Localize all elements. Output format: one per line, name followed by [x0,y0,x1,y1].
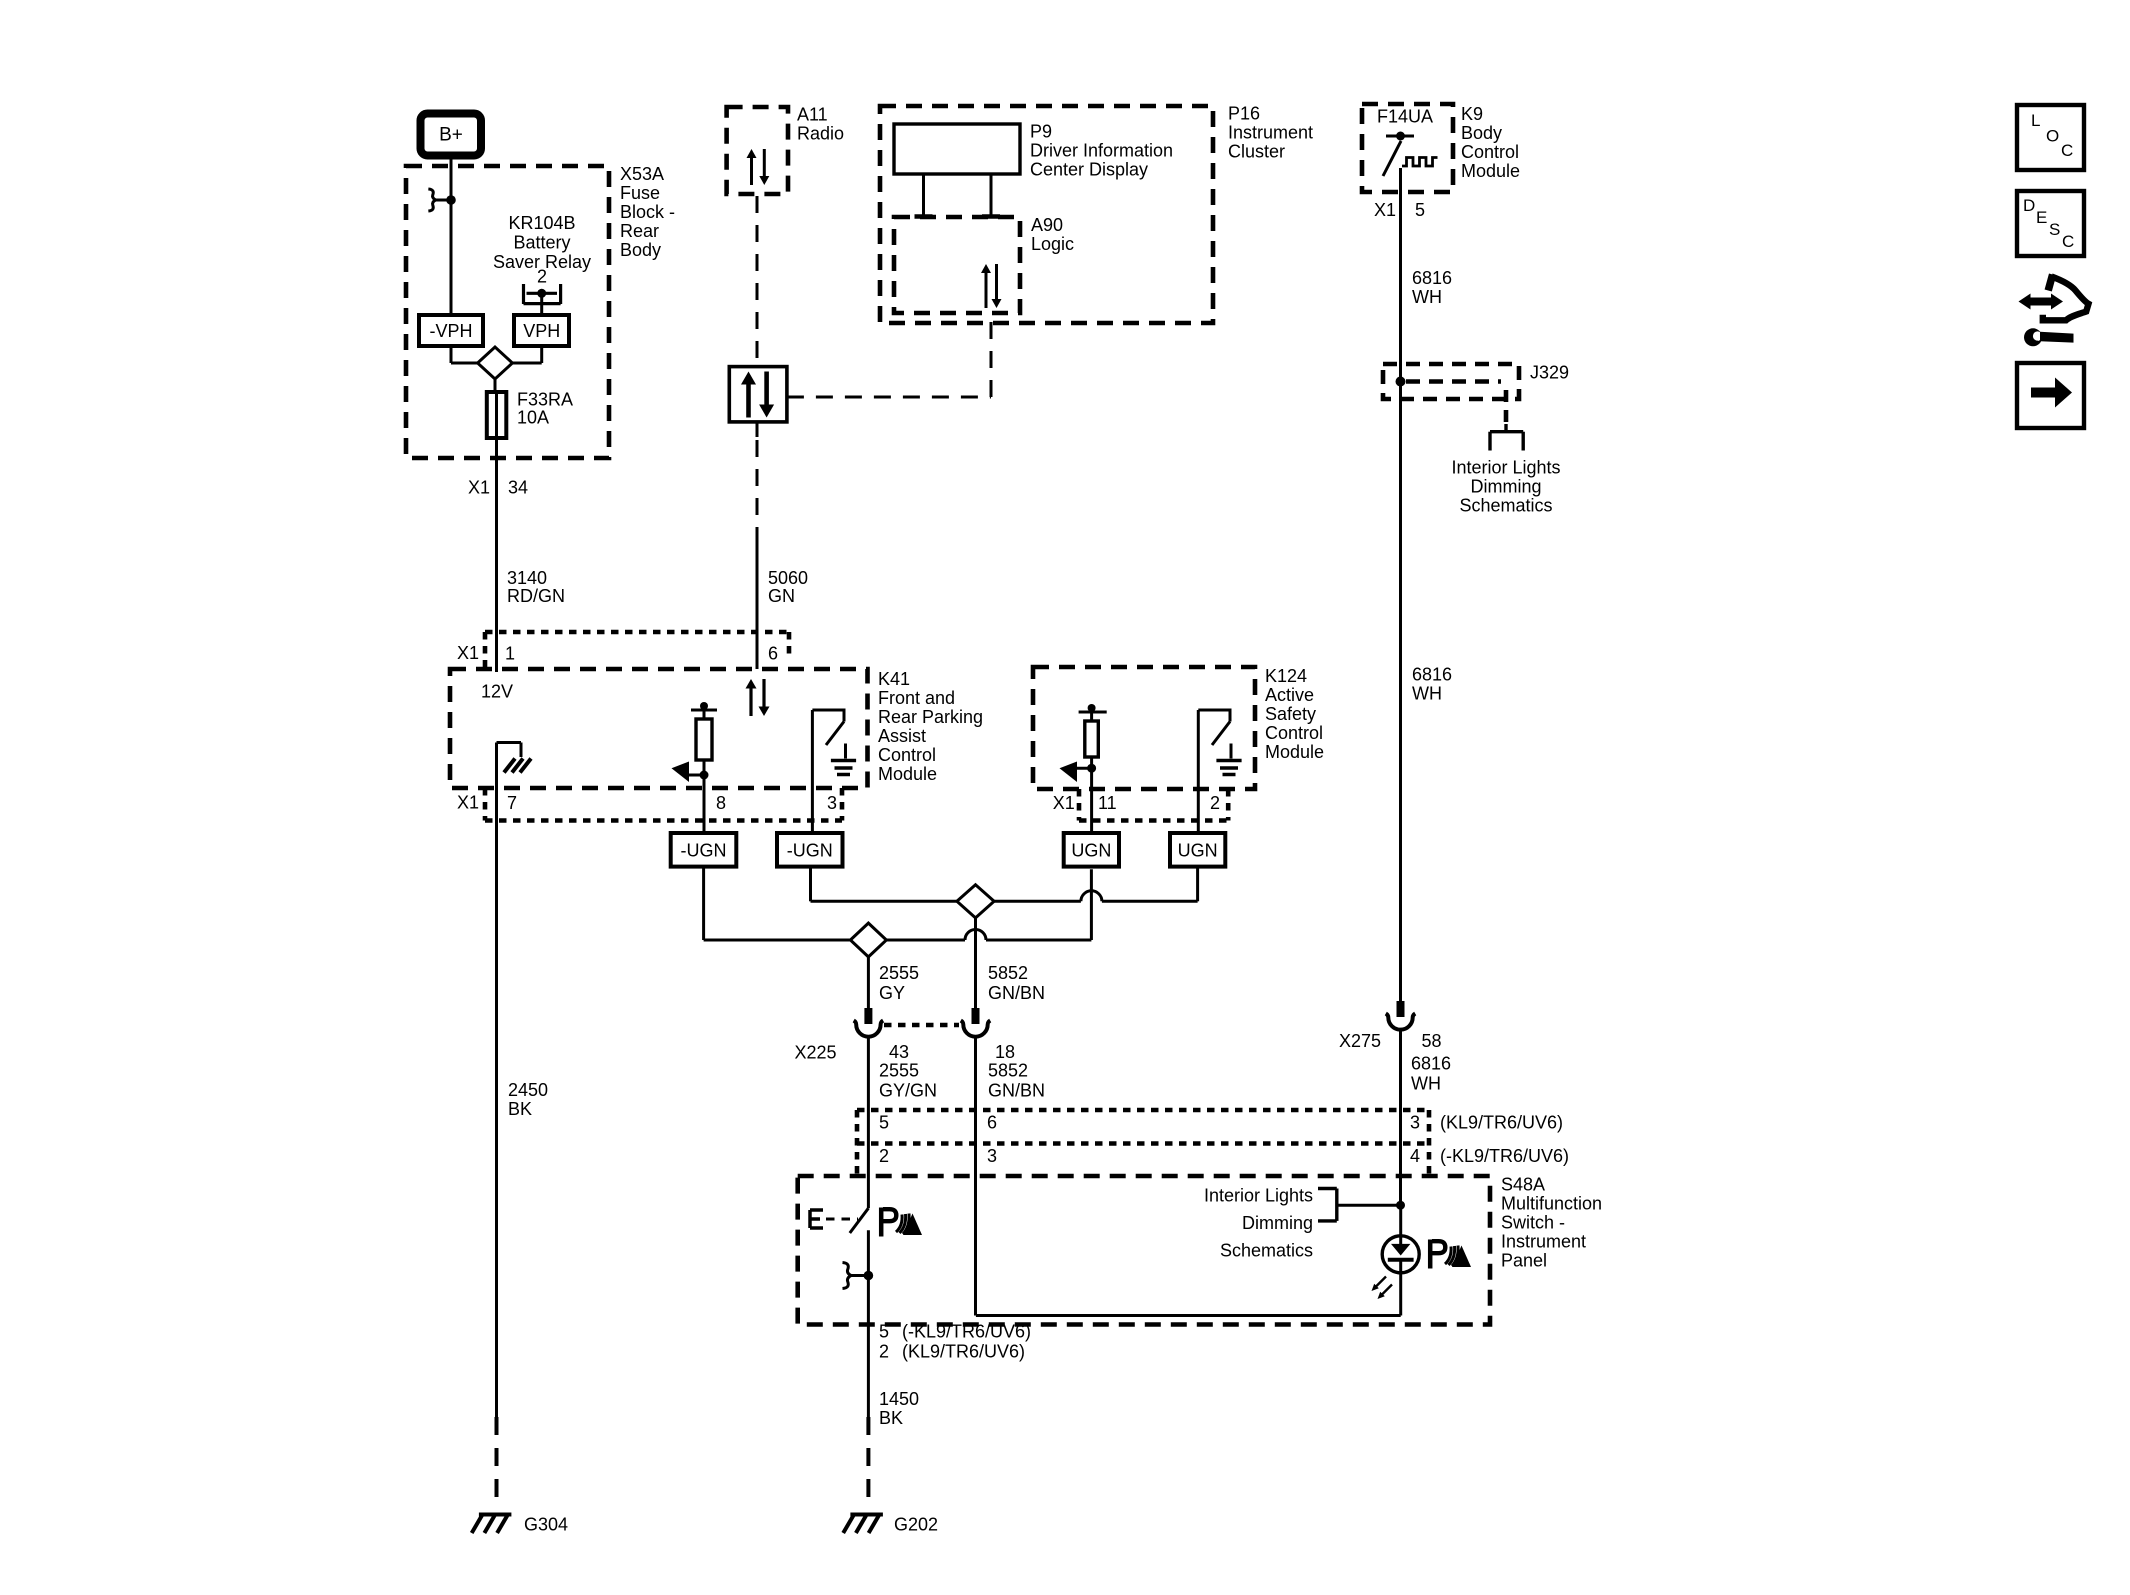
svg-text:Rear: Rear [620,221,659,241]
svg-text:Control: Control [1265,723,1323,743]
svg-text:Dimming: Dimming [1470,477,1541,497]
svg-text:(-KL9/TR6/UV6): (-KL9/TR6/UV6) [902,1322,1031,1342]
svg-text:A90: A90 [1031,215,1063,235]
svg-text:GN/BN: GN/BN [988,983,1045,1003]
svg-text:Assist: Assist [878,726,926,746]
svg-text:6: 6 [768,644,778,664]
svg-text:12V: 12V [481,682,513,702]
svg-text:GY/GN: GY/GN [879,1081,937,1101]
svg-text:Cluster: Cluster [1228,142,1285,162]
svg-text:2: 2 [537,267,547,287]
svg-text:8: 8 [716,793,726,813]
svg-text:P16: P16 [1228,104,1260,124]
svg-text:C: C [2062,232,2074,251]
svg-text:43: 43 [889,1042,909,1062]
svg-text:RD/GN: RD/GN [507,586,565,606]
svg-text:UGN: UGN [1071,841,1111,861]
svg-text:6816: 6816 [1412,665,1452,685]
svg-text:X1: X1 [468,478,490,498]
svg-text:K9: K9 [1461,104,1483,124]
svg-text:Logic: Logic [1031,234,1074,254]
svg-text:Body: Body [620,240,661,260]
svg-text:X1: X1 [457,793,479,813]
svg-text:4: 4 [1410,1146,1420,1166]
svg-text:L: L [2031,111,2040,130]
svg-text:X53A: X53A [620,164,664,184]
svg-text:(KL9/TR6/UV6): (KL9/TR6/UV6) [1440,1113,1563,1133]
svg-text:34: 34 [508,478,528,498]
svg-text:5: 5 [879,1322,889,1342]
svg-text:2555: 2555 [879,1061,919,1081]
svg-text:Module: Module [1265,742,1324,762]
svg-text:2: 2 [879,1146,889,1166]
svg-text:6816: 6816 [1411,1054,1451,1074]
svg-text:-UGN: -UGN [681,841,727,861]
svg-text:WH: WH [1412,684,1442,704]
svg-text:2555: 2555 [879,963,919,983]
svg-text:Interior Lights: Interior Lights [1204,1186,1313,1206]
svg-text:3140: 3140 [507,568,547,588]
svg-text:Safety: Safety [1265,704,1316,724]
svg-text:GY: GY [879,983,905,1003]
svg-text:6: 6 [987,1113,997,1133]
svg-text:C: C [2061,141,2073,160]
svg-text:F33RA: F33RA [517,390,573,410]
svg-text:Panel: Panel [1501,1251,1547,1271]
svg-text:Body: Body [1461,123,1502,143]
svg-text:S48A: S48A [1501,1175,1545,1195]
svg-text:K124: K124 [1265,666,1307,686]
svg-text:5852: 5852 [988,963,1028,983]
svg-text:5852: 5852 [988,1061,1028,1081]
svg-text:Active: Active [1265,685,1314,705]
svg-text:10A: 10A [517,408,549,428]
svg-text:1: 1 [505,644,515,664]
svg-text:F14UA: F14UA [1377,107,1433,127]
svg-text:Interior Lights: Interior Lights [1451,458,1560,478]
svg-text:KR104B: KR104B [508,213,575,233]
svg-text:5: 5 [1415,200,1425,220]
svg-text:11: 11 [1098,793,1117,813]
svg-text:Control: Control [1461,142,1519,162]
svg-text:(KL9/TR6/UV6): (KL9/TR6/UV6) [902,1342,1025,1362]
svg-text:GN: GN [768,586,795,606]
svg-text:Front and: Front and [878,688,955,708]
svg-text:3: 3 [827,793,837,813]
svg-text:S: S [2049,220,2060,239]
svg-text:Center Display: Center Display [1030,160,1148,180]
svg-text:X1: X1 [1374,200,1396,220]
svg-text:2450: 2450 [508,1080,548,1100]
svg-text:Driver Information: Driver Information [1030,141,1173,161]
svg-text:BK: BK [508,1099,532,1119]
svg-text:2: 2 [1210,793,1220,813]
svg-text:D: D [2023,196,2035,215]
svg-text:G202: G202 [894,1515,938,1535]
svg-text:UGN: UGN [1178,841,1218,861]
svg-text:3: 3 [1410,1113,1420,1133]
svg-text:5060: 5060 [768,568,808,588]
svg-text:B+: B+ [439,125,463,146]
svg-text:J329: J329 [1530,363,1569,383]
svg-text:6816: 6816 [1412,268,1452,288]
svg-text:Fuse: Fuse [620,183,660,203]
svg-text:3: 3 [987,1146,997,1166]
svg-text:(-KL9/TR6/UV6): (-KL9/TR6/UV6) [1440,1146,1569,1166]
svg-text:Control: Control [878,745,936,765]
svg-text:Switch -: Switch - [1501,1213,1565,1233]
svg-text:-UGN: -UGN [787,841,833,861]
svg-text:58: 58 [1422,1031,1442,1051]
svg-text:Multifunction: Multifunction [1501,1194,1602,1214]
svg-text:Instrument: Instrument [1228,123,1313,143]
svg-text:2: 2 [879,1342,889,1362]
svg-text:G304: G304 [524,1515,568,1535]
svg-text:Schematics: Schematics [1459,496,1552,516]
svg-text:E: E [2036,208,2047,227]
svg-text:K41: K41 [878,669,910,689]
svg-text:18: 18 [995,1042,1015,1062]
svg-text:WH: WH [1412,287,1442,307]
svg-text:X225: X225 [795,1043,837,1063]
svg-text:Instrument: Instrument [1501,1232,1586,1252]
svg-text:A11: A11 [797,105,828,125]
svg-text:Module: Module [1461,161,1520,181]
svg-text:BK: BK [879,1408,903,1428]
svg-text:Radio: Radio [797,124,844,144]
svg-text:1450: 1450 [879,1389,919,1409]
svg-text:GN/BN: GN/BN [988,1081,1045,1101]
svg-text:X1: X1 [1053,793,1075,813]
svg-text:X1: X1 [457,643,479,663]
svg-text:Rear Parking: Rear Parking [878,707,983,727]
svg-text:X275: X275 [1339,1031,1381,1051]
svg-text:WH: WH [1411,1074,1441,1094]
svg-text:P9: P9 [1030,122,1052,142]
svg-text:O: O [2046,127,2059,146]
svg-text:-VPH: -VPH [429,321,472,341]
svg-text:VPH: VPH [523,321,560,341]
svg-text:Module: Module [878,764,937,784]
svg-text:Schematics: Schematics [1220,1241,1313,1261]
svg-text:5: 5 [879,1113,889,1133]
svg-text:Dimming: Dimming [1242,1213,1313,1233]
svg-text:Block -: Block - [620,202,675,222]
svg-text:Battery: Battery [513,233,570,253]
svg-text:7: 7 [507,793,517,813]
